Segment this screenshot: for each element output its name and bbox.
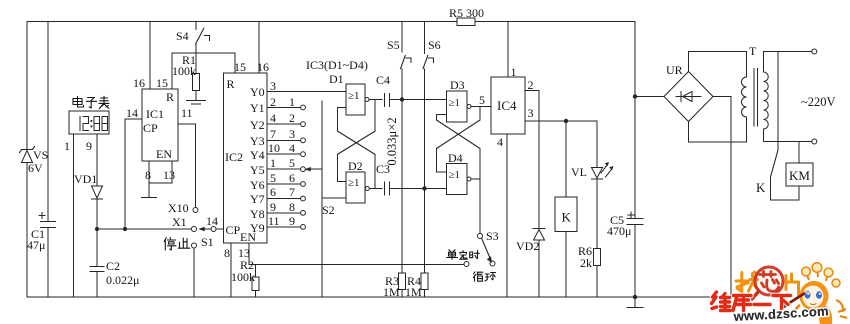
svg-text:Y2: Y2 [250,118,265,132]
svg-text:16: 16 [133,76,145,90]
terminal 220V lower [764,139,817,144]
led VL [571,121,614,179]
relay K coil [555,119,577,297]
svg-text:EN: EN [156,147,172,161]
svg-text:4: 4 [497,135,503,149]
wire bridge bottom AC to transformer [689,122,747,143]
wire Y0 to D1 input [267,91,346,93]
pin Y8 terminal 8 [250,200,305,221]
op IC2 decade counter box [224,60,270,244]
wire IC1 pin11 to X10 contact [178,124,196,207]
wire IC1 pin14 CP to X1 node [123,119,142,231]
wire IC4 pin1 to rail [508,22,517,80]
wire S6 to node B and R4 [424,69,426,273]
node 停止 stop contact [164,238,196,298]
svg-text:15: 15 [234,60,246,74]
svg-text:1: 1 [270,156,276,170]
wire IC1 pin16 to rail [149,22,151,90]
node A junction [400,97,447,101]
svg-text:T: T [749,44,757,58]
ground IC1 [141,197,157,199]
svg-text:Y1: Y1 [250,101,265,115]
svg-text:0.033μ×2: 0.033μ×2 [385,117,399,165]
svg-text:D2: D2 [348,159,363,173]
svg-text:1: 1 [289,95,295,109]
svg-text:K: K [756,180,766,195]
svg-text:9: 9 [289,214,295,228]
svg-text:3: 3 [528,106,534,120]
svg-text:7: 7 [289,185,295,199]
resistor R4 1M [405,273,428,299]
svg-text:S4: S4 [176,29,189,43]
svg-text:9: 9 [86,139,92,153]
svg-text:D1: D1 [329,72,344,86]
capacitor C2 [90,259,139,297]
block electronic clock 电子表 [64,96,109,153]
svg-text:≥1: ≥1 [449,97,461,109]
diode VD2 [516,229,545,298]
gate D2 [346,159,369,203]
svg-text:IC2: IC2 [225,150,243,164]
svg-text:~220V: ~220V [801,95,836,109]
capacitor C4 [376,73,402,107]
ground main [627,297,644,308]
wire D3 D4 cross coupling [437,107,481,180]
wire IC4 pin3 to relay and LED [525,106,597,121]
svg-text:≥1: ≥1 [348,177,360,189]
switch S1 selector arrow [198,214,223,249]
watermark 维库一下 red [712,292,791,311]
wire D2 output [369,187,382,189]
pin Y4 terminal 4 [250,141,305,162]
switch S5 [387,22,411,69]
ground R1 [186,101,206,105]
pin Y7 terminal 7 [250,185,305,206]
svg-text:X1: X1 [172,215,187,229]
svg-text:7: 7 [270,127,276,141]
switch S6 [423,22,441,69]
terminal 220V upper [764,49,817,54]
svg-text:S5: S5 [387,38,400,52]
wire IC2 pin8 to ground rail [224,243,231,297]
wire D1 output [369,99,382,101]
gate D1 [329,72,369,115]
svg-text:1: 1 [511,65,517,79]
gate D4 [447,151,472,195]
switch S2 wiper [304,101,346,297]
diode VD1 [74,172,103,229]
wire bridge DC minus to ground rail [713,97,731,298]
svg-text:8: 8 [289,200,295,214]
svg-text:R: R [227,77,235,91]
svg-text:CP: CP [143,121,158,135]
svg-text:C4: C4 [376,73,390,87]
label ~220V [801,95,836,109]
svg-text:0.022μ: 0.022μ [106,273,139,287]
wire EN line to S3 单定时 [256,264,465,266]
wire left supply verticals [27,22,48,298]
svg-text:Y9: Y9 [250,221,265,235]
svg-text:Y0: Y0 [250,85,265,99]
pin Y6 terminal 6 [250,171,305,192]
svg-text:8: 8 [145,168,151,182]
svg-text:KM: KM [789,168,810,183]
resistor R2 100k [231,258,259,297]
wire to C2 [96,229,98,267]
wire IC4 pin2 to VD2 line [525,78,539,228]
watermark mascot [782,263,847,324]
svg-text:IC3(D1~D4): IC3(D1~D4) [306,58,368,72]
svg-text:1: 1 [64,139,70,153]
svg-text:4: 4 [270,111,276,125]
svg-text:S6: S6 [428,38,441,52]
svg-text:3: 3 [270,79,276,93]
node X1 junction [95,227,191,231]
svg-text:UR: UR [666,63,683,77]
wire IC4 pin4 to ground rail [497,134,507,297]
svg-text:VD1: VD1 [74,172,97,186]
wire bottom ground rail [27,295,731,299]
pin Y1 terminal 1 [250,95,305,115]
svg-text:6V: 6V [28,161,43,175]
pin Y0 label [250,79,276,99]
svg-text:5: 5 [289,156,295,170]
wire S5 to node A and R3 [401,69,403,273]
svg-text:4: 4 [289,141,295,155]
svg-text:K: K [562,210,572,225]
wire DC bus right corner [633,22,664,219]
svg-text:15: 15 [156,76,168,90]
contactor KM [786,142,813,187]
svg-text:≥1: ≥1 [449,169,461,181]
svg-text:IC1: IC1 [146,107,164,121]
svg-text:10: 10 [268,141,280,155]
wire clock pin1 to ground rail [73,134,75,297]
svg-text:47μ: 47μ [27,238,45,252]
wire D3 output to IC4 pin5 [471,93,491,107]
wire D4 output to S3 [471,179,480,234]
zener diode VS 6V [20,147,49,176]
svg-text:Y3: Y3 [250,134,265,148]
wire IC1 pin15 reset line [172,53,235,89]
svg-text:C2: C2 [106,259,120,273]
svg-text:2: 2 [270,95,276,109]
switch K contact [756,52,799,201]
svg-text:6: 6 [270,185,276,199]
svg-text:2: 2 [528,78,534,92]
svg-text:VD2: VD2 [516,239,539,253]
watermark www.dzsc.com [732,303,829,324]
svg-text:IC4: IC4 [497,98,517,113]
svg-text:8: 8 [224,246,230,260]
wire top +6V rail [27,21,635,23]
svg-text:11: 11 [181,106,193,120]
svg-text:VS: VS [33,148,48,162]
svg-text:14: 14 [126,106,138,120]
svg-text:Y8: Y8 [250,207,265,221]
wire clock pin9 down [96,134,98,186]
svg-text:Y5: Y5 [250,163,265,177]
op IC1 counter box [126,76,193,182]
switch S4 [176,22,210,45]
pin Y2 terminal 2 [250,111,305,132]
label 电子表 [73,96,109,108]
resistor R3 1M [383,273,406,299]
node X1 contact [172,215,197,232]
label 0.033u x2 [385,117,399,165]
svg-text:D3: D3 [450,78,465,92]
gate D3 [447,78,472,122]
svg-text:100k: 100k [231,270,255,284]
op IC4 box [491,77,525,134]
pin Y9 terminal 9 [250,214,305,235]
svg-text:S1: S1 [201,235,214,249]
svg-text:1M: 1M [383,285,400,299]
transformer T [742,44,769,142]
svg-text:13: 13 [163,168,175,182]
resistor R1 100k [172,44,200,101]
svg-text:R: R [166,90,174,104]
svg-text:≥1: ≥1 [348,90,360,102]
capacitor C3 [376,162,424,195]
svg-text:Y7: Y7 [250,192,265,206]
svg-text:6: 6 [289,171,295,185]
wire IC2 pin13 EN [238,243,256,265]
svg-text:3: 3 [289,127,295,141]
node 单定时 contact [447,250,480,267]
svg-text:2k: 2k [580,256,592,270]
switch S3 [478,229,499,266]
svg-text:14: 14 [206,214,218,228]
svg-text:R5 300: R5 300 [449,6,484,20]
svg-text:S3: S3 [486,229,499,243]
svg-text:470μ: 470μ [607,224,631,238]
wire IC2 pin16 to rail [258,22,260,74]
resistor R6 2k [578,179,601,297]
node B junction [422,186,446,190]
svg-text:Y6: Y6 [250,178,265,192]
capacitor C5 [607,212,643,297]
svg-text:9: 9 [270,200,276,214]
pin Y5 terminal 5 [250,156,305,177]
watermark stamp 找芯片 [736,266,799,300]
bridge rectifier UR [664,63,713,122]
svg-text:2: 2 [289,111,295,125]
svg-text:CP: CP [226,223,241,237]
wire IC2 pin15 [234,53,236,73]
node 循环 contact label [473,272,495,282]
resistor R5 [449,6,484,26]
wire bridge top AC to transformer [689,52,747,72]
svg-text:5: 5 [479,93,485,107]
svg-text:1M: 1M [405,285,422,299]
capacitor C1 [27,213,56,253]
svg-text:11: 11 [268,214,280,228]
svg-text:D4: D4 [448,151,463,165]
pin Y3 terminal 3 [250,127,305,148]
wire D1 D2 cross coupling [337,100,375,189]
node X10 contact [168,201,198,215]
svg-text:VL: VL [571,165,587,179]
svg-text:5: 5 [270,171,276,185]
svg-text:Y4: Y4 [250,148,265,162]
svg-text:100k: 100k [172,64,196,78]
svg-text:S2: S2 [322,203,335,217]
label IC3(D1~D4) [306,58,368,72]
svg-text:X10: X10 [168,201,189,215]
wire IC1 pins 8 13 to ground [149,161,172,198]
